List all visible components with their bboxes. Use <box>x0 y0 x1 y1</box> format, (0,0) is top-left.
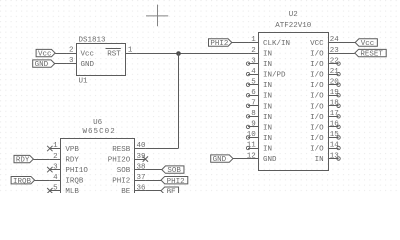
U1 pin 3 (GND) <box>66 63 77 65</box>
U6 pin 38 (SOB) <box>135 169 146 171</box>
wire RESET net: U1 RST to U2 pin 2 <box>136 53 248 55</box>
U6 pin 3 number <box>53 163 58 171</box>
U2 pin 24 name <box>310 40 324 48</box>
U2 pin 14 number <box>330 142 340 150</box>
svg-text:I/O: I/O <box>310 135 324 143</box>
svg-text:17: 17 <box>330 110 339 118</box>
svg-text:21: 21 <box>330 68 340 76</box>
wire PHI2 label to U2 pin 1 <box>232 42 248 44</box>
U2 value label ATF22V10 <box>275 22 312 30</box>
wire GND label to U1 pin 3 <box>55 63 66 65</box>
U6 pin 36 number <box>137 184 147 192</box>
svg-text:23: 23 <box>330 47 340 55</box>
svg-text:1: 1 <box>251 36 256 44</box>
svg-text:3: 3 <box>53 163 58 171</box>
svg-text:GND: GND <box>263 156 277 164</box>
U2 pin 12 name <box>263 156 277 164</box>
U1 pin 1 number <box>128 47 133 55</box>
wire U2 pin 23 to RESET label <box>339 53 355 55</box>
U2 pin 15 (I/O) <box>328 136 340 139</box>
svg-text:5: 5 <box>251 78 256 86</box>
U6 pin 40 name <box>112 146 131 154</box>
svg-text:IN: IN <box>263 135 272 143</box>
junction on RESET net <box>176 51 181 56</box>
svg-text:36: 36 <box>137 184 147 192</box>
U2 pin 24 (VCC) <box>328 42 339 44</box>
svg-text:PHI2: PHI2 <box>210 40 228 48</box>
svg-text:13: 13 <box>330 152 340 160</box>
svg-text:IN/PD: IN/PD <box>263 72 286 80</box>
svg-text:VPB: VPB <box>65 146 79 154</box>
svg-text:4: 4 <box>53 174 58 182</box>
U2 pin 17 name <box>310 114 324 122</box>
svg-text:I/O: I/O <box>310 145 324 153</box>
U2 pin 14 name <box>310 145 324 153</box>
svg-text:14: 14 <box>330 142 340 150</box>
power label Vcc at U1 pin 2 <box>36 49 55 58</box>
U2 pin 1 name <box>263 40 290 48</box>
U2 pin 2 number <box>251 47 256 55</box>
U2 pin 22 name <box>310 61 324 69</box>
U2 pin 18 (I/O) <box>328 104 340 107</box>
wire U6 pin 36 to BE label <box>145 190 161 192</box>
IC U6 W65C02 body (clipped at sheet bottom) <box>61 139 135 201</box>
svg-text:PHI2: PHI2 <box>112 178 130 186</box>
svg-text:U2: U2 <box>289 11 298 19</box>
U6 pin 2 name <box>65 157 79 165</box>
U2 pin 6 number <box>251 89 256 97</box>
svg-text:1: 1 <box>128 47 133 55</box>
U6 pin 39 (PHI2O) <box>135 159 146 161</box>
U2 pin 18 number <box>330 100 339 108</box>
U2 pin 2 (IN) <box>248 53 259 55</box>
U2 pin 5 name <box>263 82 272 90</box>
global label PHI2 at U2 pin 1 <box>209 39 232 48</box>
IC U1 DS1813 body <box>77 44 126 76</box>
svg-text:RESET: RESET <box>360 51 383 59</box>
svg-text:4: 4 <box>251 68 256 76</box>
svg-text:W65C02: W65C02 <box>82 128 115 136</box>
no-connect X on U6 pin 5 <box>47 188 52 193</box>
sheet origin crosshair marker <box>146 5 168 27</box>
no-connect X on U6 pin 39 <box>143 156 148 161</box>
wire RESET net vertical drop to U6 <box>178 53 180 148</box>
IC U2 ATF22V10 body <box>259 33 329 171</box>
svg-text:11: 11 <box>247 142 257 150</box>
U2 pin 17 number <box>330 110 339 118</box>
U2 pin 8 number <box>251 110 256 118</box>
svg-text:RDY: RDY <box>65 157 79 165</box>
svg-text:GND: GND <box>35 61 49 69</box>
U2 pin 15 name <box>310 135 324 143</box>
svg-text:22: 22 <box>330 57 339 65</box>
svg-text:IN: IN <box>263 103 272 111</box>
U2 pin 23 name <box>310 51 324 59</box>
U2 reference designator U2 <box>289 11 298 19</box>
U2 pin 12 number <box>247 152 256 160</box>
svg-text:12: 12 <box>247 152 256 160</box>
U2 pin 3 number <box>251 57 256 65</box>
svg-text:IN: IN <box>263 93 272 101</box>
U2 pin 14 (I/O) <box>328 146 340 149</box>
U2 pin 24 number <box>330 36 340 44</box>
svg-text:U6: U6 <box>93 119 103 127</box>
global label RDY at U6 pin 2 <box>14 155 33 164</box>
svg-text:RDY: RDY <box>16 157 30 165</box>
U6 pin 3 name <box>65 167 88 175</box>
global label RESET at U2 pin 23 <box>355 49 386 58</box>
U2 pin 23 (I/O) <box>328 53 339 55</box>
U2 pin 11 number <box>247 142 257 150</box>
U6 pin 4 name <box>65 178 84 186</box>
no-connect X on U6 pin 3 <box>47 167 52 172</box>
U1 pin 2 (Vcc input) <box>66 53 77 55</box>
svg-text:24: 24 <box>330 36 340 44</box>
U6 pin 39 name <box>108 157 131 165</box>
U2 pin 21 name <box>310 72 324 80</box>
svg-text:CLK/IN: CLK/IN <box>263 40 290 48</box>
U2 pin 5 number <box>251 78 256 86</box>
svg-text:ATF22V10: ATF22V10 <box>275 22 312 30</box>
U6 pin 36 (BE) <box>135 190 146 192</box>
U2 pin 11 name <box>263 145 272 153</box>
U2 pin 8 name <box>263 114 272 122</box>
U2 pin 16 name <box>310 124 324 132</box>
svg-text:RST: RST <box>107 51 121 59</box>
svg-text:RESB: RESB <box>112 146 131 154</box>
U2 pin 1 (CLK/IN) <box>248 42 259 44</box>
U2 pin 22 number <box>330 57 339 65</box>
svg-text:I/O: I/O <box>310 61 324 69</box>
svg-text:IN: IN <box>263 114 272 122</box>
U1 pin name GND <box>81 61 95 69</box>
U2 pin 4 name <box>263 72 286 80</box>
U2 pin 5 (IN) <box>246 83 258 86</box>
svg-text:Vcc: Vcc <box>38 51 52 59</box>
U2 pin 3 name <box>263 61 272 69</box>
svg-text:38: 38 <box>137 163 146 171</box>
U2 pin 9 (IN) <box>246 125 258 128</box>
svg-text:9: 9 <box>251 121 256 129</box>
U2 pin 4 number <box>251 68 256 76</box>
no-connect X on U6 pin 1 <box>47 146 52 151</box>
U2 pin 17 (I/O) <box>328 115 340 118</box>
svg-text:I/O: I/O <box>310 114 324 122</box>
U1 pin 2 number <box>69 47 74 55</box>
U6 pin 2 (RDY) <box>50 159 61 161</box>
svg-text:PHI2: PHI2 <box>167 178 185 186</box>
U2 pin 18 name <box>310 103 324 111</box>
wire U6 pin 37 to PHI2 label <box>145 180 161 182</box>
svg-text:IRQB: IRQB <box>13 178 32 186</box>
svg-text:IN: IN <box>263 145 272 153</box>
U6 pin 5 name <box>65 188 79 196</box>
U2 pin 20 name <box>310 82 324 90</box>
U1 pin name RST with active-low overline <box>106 49 122 59</box>
svg-text:7: 7 <box>251 100 256 108</box>
U6 pin 5 (MLB) <box>50 190 61 192</box>
U6 pin 2 number <box>53 153 58 161</box>
U1 pin 3 number <box>69 57 74 65</box>
U2 pin 20 (I/O) <box>328 83 340 86</box>
svg-text:SOB: SOB <box>117 167 131 175</box>
svg-text:BE: BE <box>167 188 177 193</box>
U2 pin 19 name <box>310 93 324 101</box>
svg-text:1: 1 <box>53 142 58 150</box>
svg-text:20: 20 <box>330 78 340 86</box>
global label SOB at U6 pin 38 <box>162 166 184 175</box>
U2 pin 15 number <box>330 131 340 139</box>
wire Vcc label to U1 pin 2 <box>55 53 66 55</box>
svg-text:IN: IN <box>263 61 272 69</box>
power label GND at U2 pin 12 <box>211 155 233 164</box>
U2 pin 23 number <box>330 47 340 55</box>
U2 pin 12 (GND) <box>248 158 259 160</box>
U2 pin 8 (IN) <box>246 115 258 118</box>
svg-text:Vcc: Vcc <box>81 51 95 59</box>
U2 pin 21 (I/O) <box>328 72 340 75</box>
svg-text:6: 6 <box>251 89 256 97</box>
global label IRQB at U6 pin 4 <box>11 176 34 185</box>
svg-text:I/O: I/O <box>310 93 324 101</box>
U2 pin 10 (IN) <box>246 136 258 139</box>
U2 pin 21 number <box>330 68 340 76</box>
U6 pin 37 number <box>137 174 146 182</box>
svg-text:I/O: I/O <box>310 82 324 90</box>
svg-text:I/O: I/O <box>310 72 324 80</box>
U2 pin 9 name <box>263 124 272 132</box>
svg-text:IRQB: IRQB <box>65 178 84 186</box>
svg-text:IN: IN <box>263 124 272 132</box>
svg-text:40: 40 <box>137 142 147 150</box>
U6 pin 37 name <box>112 178 130 186</box>
svg-text:2: 2 <box>53 153 58 161</box>
U6 pin 40 number <box>137 142 147 150</box>
svg-text:I/O: I/O <box>310 103 324 111</box>
U1 reference designator U1 <box>79 77 89 85</box>
U6 pin 40 (RESB) <box>135 148 146 150</box>
U2 pin 7 number <box>251 100 256 108</box>
svg-text:SOB: SOB <box>167 167 181 175</box>
U2 pin 13 name <box>315 156 324 164</box>
svg-text:5: 5 <box>53 184 58 192</box>
wire U6 pin 38 to SOB label <box>145 169 161 171</box>
svg-text:IN: IN <box>263 51 272 59</box>
U2 pin 13 number <box>330 152 340 160</box>
U2 pin 9 number <box>251 121 256 129</box>
svg-text:37: 37 <box>137 174 146 182</box>
U6 pin 37 (PHI2) <box>135 180 146 182</box>
svg-text:2: 2 <box>69 47 74 55</box>
svg-text:19: 19 <box>330 89 339 97</box>
U2 pin 19 (I/O) <box>328 94 340 97</box>
wire U2 pin 24 to Vcc label <box>339 42 356 44</box>
svg-text:IN: IN <box>315 156 324 164</box>
U2 pin 13 (IN) <box>328 157 340 160</box>
wire IRQB label to U6 pin 4 <box>35 180 50 182</box>
U6 pin 5 number <box>53 184 58 192</box>
power label GND at U1 pin 3 <box>33 60 55 69</box>
svg-text:16: 16 <box>330 121 340 129</box>
wire GND label to U2 pin 12 <box>233 158 248 160</box>
U6 pin 38 number <box>137 163 146 171</box>
U2 pin 4 (IN/PD) <box>246 72 258 75</box>
wire RESET net to U6 RESB pin 40 <box>145 148 178 150</box>
svg-text:3: 3 <box>251 57 256 65</box>
svg-text:GND: GND <box>81 61 95 69</box>
svg-text:I/O: I/O <box>310 124 324 132</box>
svg-text:VCC: VCC <box>310 40 324 48</box>
svg-text:Vcc: Vcc <box>361 40 375 48</box>
U6 pin 1 (VPB) <box>50 148 61 150</box>
svg-text:3: 3 <box>69 57 74 65</box>
svg-text:BE: BE <box>121 188 131 193</box>
svg-text:10: 10 <box>247 131 257 139</box>
svg-text:MLB: MLB <box>65 188 79 193</box>
svg-text:DS1813: DS1813 <box>79 36 107 44</box>
U2 pin 7 name <box>263 103 272 111</box>
svg-text:GND: GND <box>213 156 227 164</box>
svg-text:15: 15 <box>330 131 340 139</box>
global label BE at U6 pin 36 <box>161 187 179 196</box>
svg-text:PHI2O: PHI2O <box>108 157 131 165</box>
U1 value label DS1813 <box>79 36 107 44</box>
U2 pin 2 name <box>263 51 272 59</box>
wire RDY label to U6 pin 2 <box>33 159 49 161</box>
U2 pin 6 (IN) <box>246 94 258 97</box>
svg-text:18: 18 <box>330 100 339 108</box>
svg-text:PHI1O: PHI1O <box>65 167 88 175</box>
U2 pin 16 number <box>330 121 340 129</box>
U2 pin 10 name <box>263 135 272 143</box>
U1 pin 1 (RST output) <box>126 53 137 55</box>
U6 pin 4 (IRQB) <box>50 180 61 182</box>
U2 pin 7 (IN) <box>246 104 258 107</box>
U6 pin 3 (PHI1O) <box>50 169 61 171</box>
U2 pin 16 (I/O) <box>328 125 340 128</box>
svg-text:U1: U1 <box>79 77 89 85</box>
U2 pin 10 number <box>247 131 257 139</box>
svg-text:2: 2 <box>251 47 256 55</box>
svg-text:8: 8 <box>251 110 256 118</box>
U2 pin 11 (IN) <box>246 146 258 149</box>
U2 pin 3 (IN) <box>246 62 258 65</box>
U6 value label W65C02 <box>82 128 115 136</box>
svg-text:I/O: I/O <box>310 51 324 59</box>
U6 pin 1 name <box>65 146 79 154</box>
U2 pin 22 (I/O) <box>328 62 340 65</box>
U6 pin 1 number <box>53 142 58 150</box>
power label Vcc at U2 pin 24 <box>355 39 377 48</box>
U1 pin name Vcc <box>81 51 95 59</box>
svg-text:IN: IN <box>263 82 272 90</box>
U2 pin 1 number <box>251 36 256 44</box>
U6 pin 36 name <box>121 188 131 196</box>
U6 pin 38 name <box>117 167 131 175</box>
U2 pin 19 number <box>330 89 339 97</box>
global label PHI2 at U6 pin 37 <box>161 176 188 185</box>
U2 pin 20 number <box>330 78 340 86</box>
U6 reference designator U6 <box>93 119 103 127</box>
U2 pin 6 name <box>263 93 272 101</box>
U6 pin 4 number <box>53 174 58 182</box>
U6 pin 39 number <box>137 153 146 161</box>
